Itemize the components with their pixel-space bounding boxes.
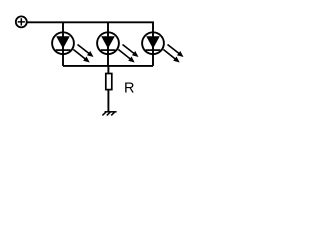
LED D1: [52, 32, 93, 62]
wire: top rail from + terminal to right corner, down to bottom-right: [27, 22, 153, 66]
wire: LED D1 branch: [62, 22, 64, 66]
wire: bottom rail: [63, 65, 153, 67]
LED D3: [142, 32, 183, 62]
wire: resistor to ground: [107, 90, 109, 112]
svg-text:R: R: [124, 80, 134, 96]
ground: [102, 112, 116, 116]
resistor R: [106, 74, 112, 90]
positive supply terminal: [16, 16, 27, 27]
wire: LED D2 branch: [107, 22, 109, 66]
wire: bottom rail to resistor: [107, 66, 109, 74]
LED D2: [97, 32, 138, 62]
